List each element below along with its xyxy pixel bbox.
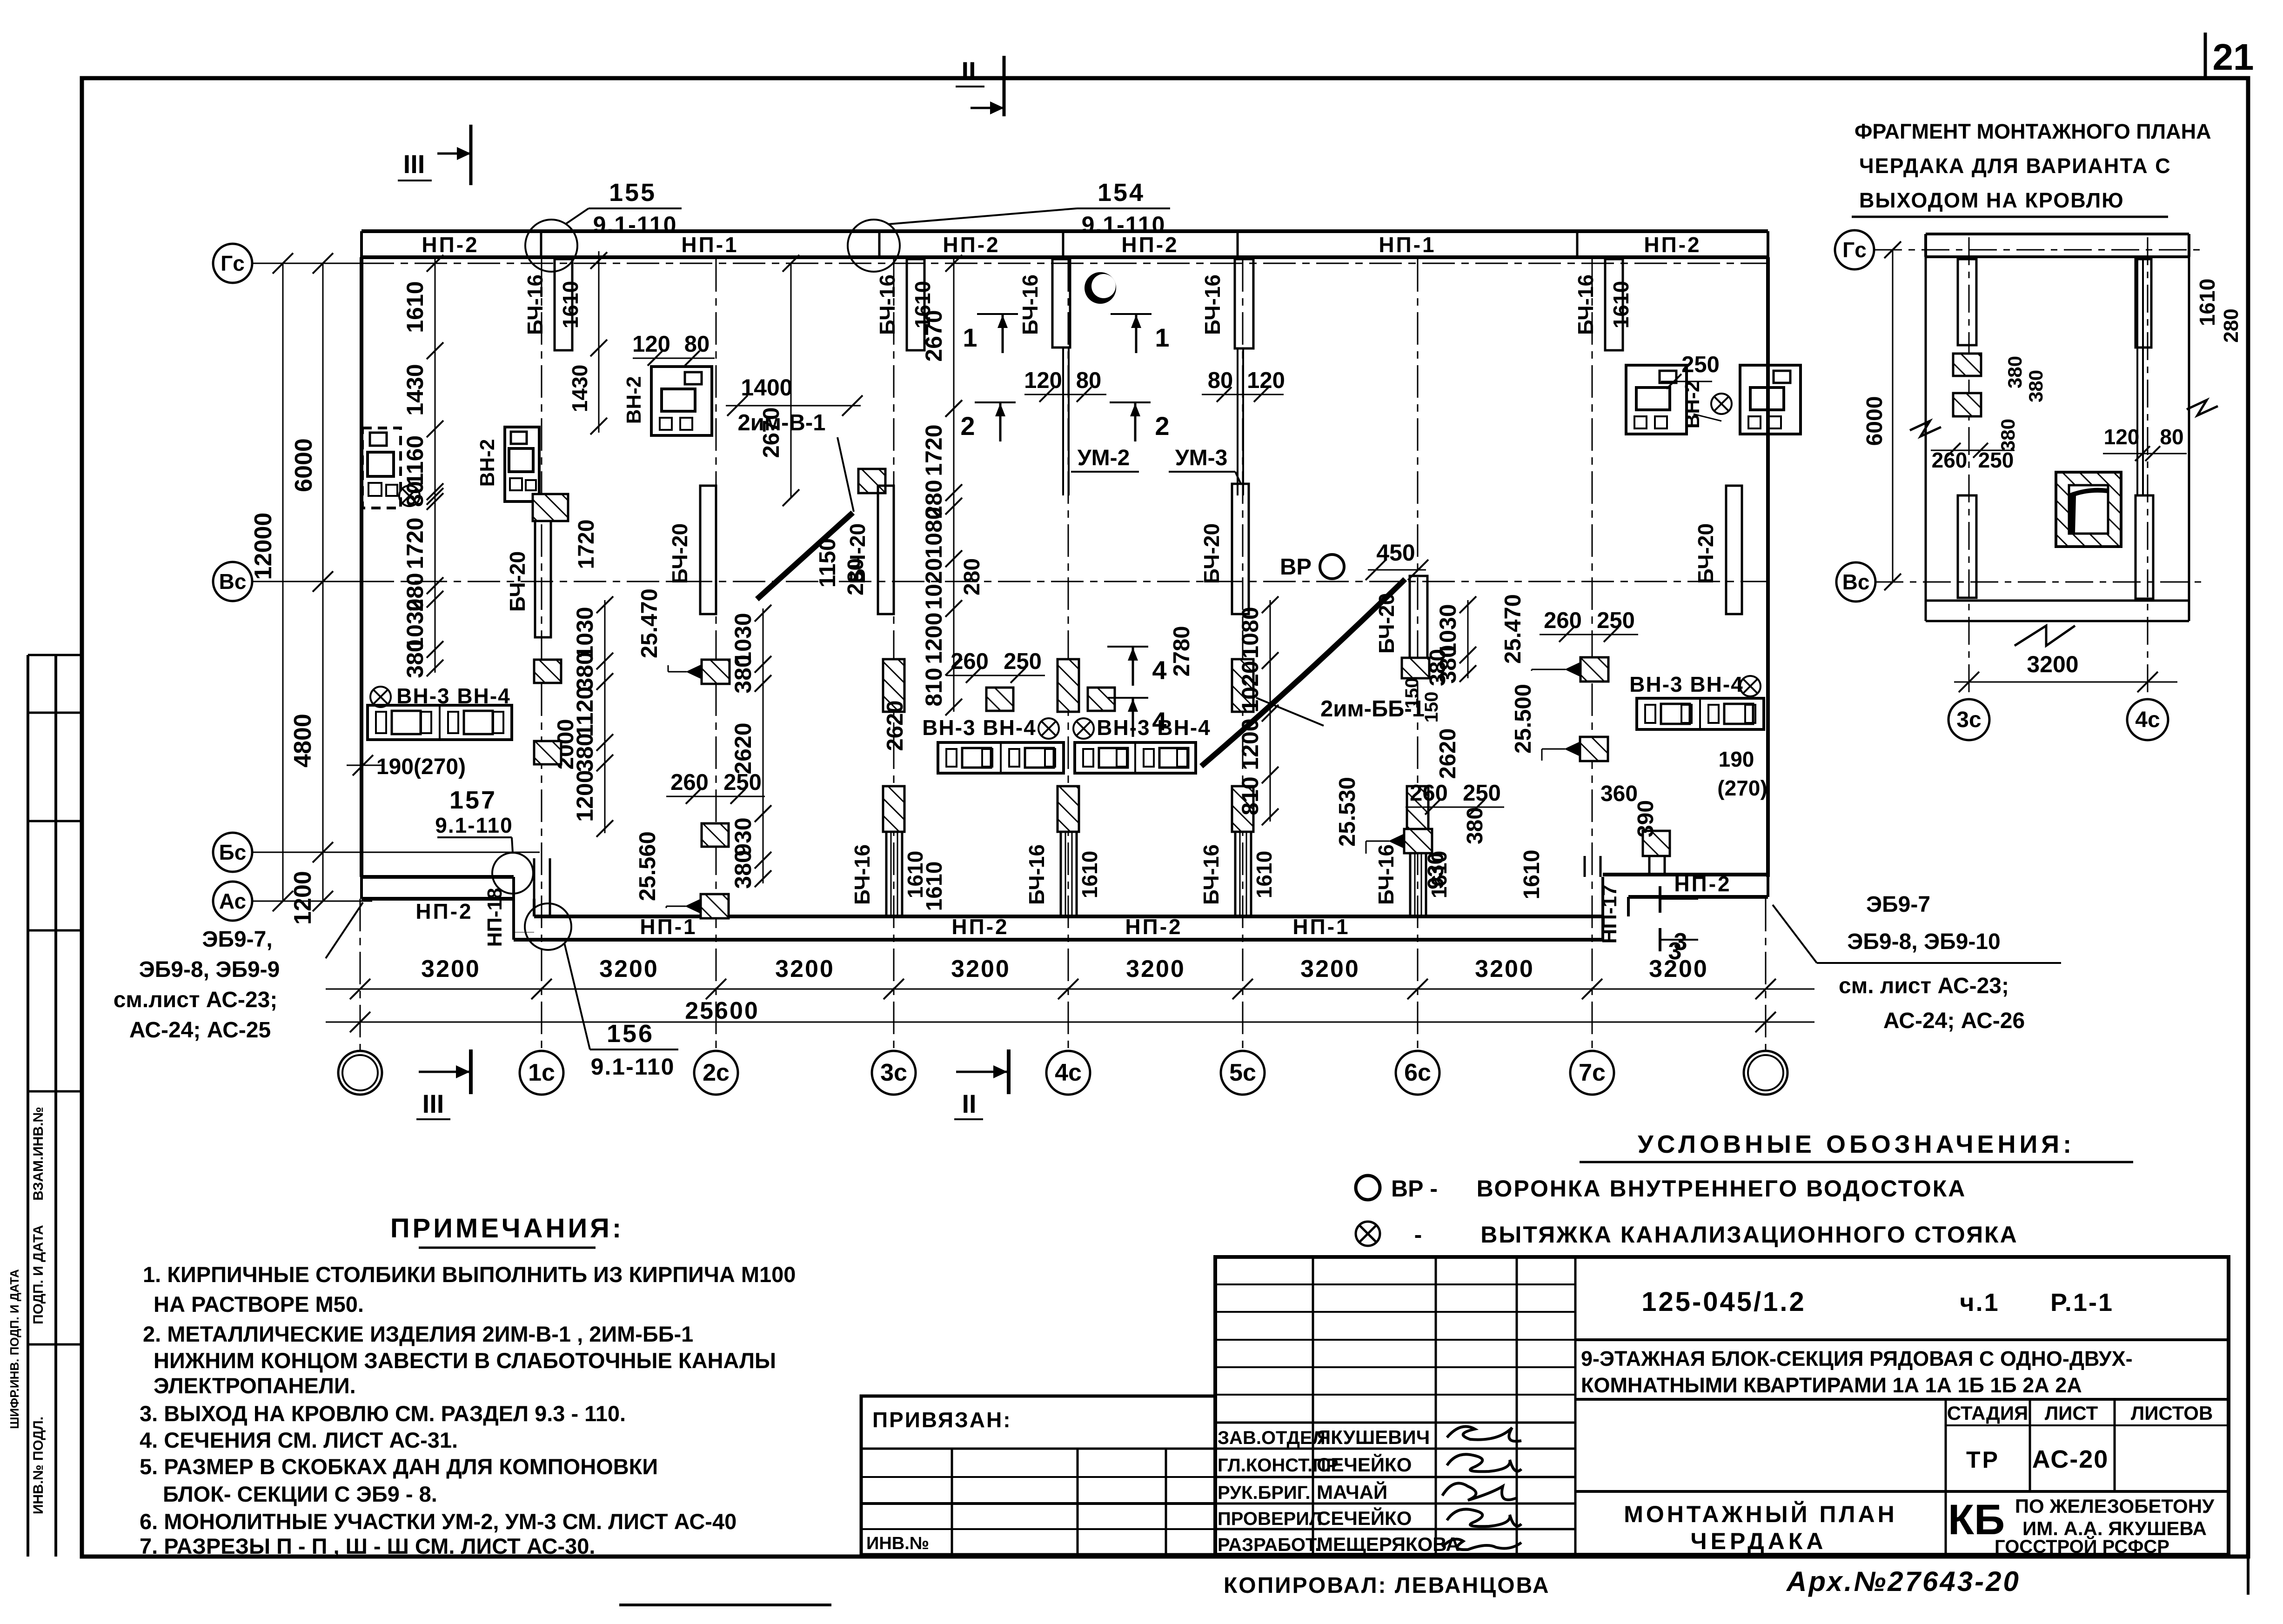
joint detail circle 155 (525, 220, 577, 272)
fragment top wall band (1926, 233, 2189, 235)
fragment hatched block 1 (1953, 354, 1981, 376)
svg-text:810: 810 (921, 668, 947, 706)
pier БЧ-16 below top wall at x=1921 (907, 259, 924, 350)
svg-text:1610: 1610 (2195, 279, 2219, 326)
svg-text:810: 810 (1237, 776, 1263, 815)
svg-text:1610: 1610 (1252, 851, 1276, 898)
svg-text:3200: 3200 (775, 956, 835, 982)
section mark 1 at (2100,675) (977, 313, 1018, 315)
svg-text:ВОРОНКА ВНУТРЕННЕГО ВОДОСТОК: ВОРОНКА ВНУТРЕННЕГО ВОДОСТОКА (1477, 1176, 1967, 1202)
svg-text:380: 380 (572, 652, 598, 690)
row axis line Бс (252, 852, 540, 853)
signature scribble 2 (1447, 1454, 1521, 1471)
fragment thin strip at 4с (2136, 257, 2138, 495)
svg-text:9.1-110: 9.1-110 (435, 813, 513, 837)
svg-text:360: 360 (1600, 782, 1638, 806)
привязан table outer (861, 1396, 1215, 1555)
hatched pier at x=2296 near Вс (1058, 659, 1079, 712)
metal item 2им-В-1 leader (837, 437, 854, 512)
svg-text:АС-20: АС-20 (2032, 1445, 2109, 1473)
svg-text:80: 80 (402, 481, 428, 507)
wall jog НП-17 (1601, 877, 1604, 940)
dim row 25600 line (326, 1022, 1814, 1023)
svg-text:1020: 1020 (1237, 661, 1263, 712)
vent block ВН at (790,1516) (368, 705, 512, 740)
svg-text:2620: 2620 (1435, 728, 1460, 779)
column bubble 4с (1046, 1051, 1090, 1095)
dim chain 12000 line (282, 263, 284, 901)
svg-text:1610: 1610 (1078, 851, 1102, 898)
svg-text:156: 156 (607, 1020, 654, 1048)
frame right lower extension (2247, 1557, 2250, 1595)
svg-text:ВЫТЯЖКА КАНАЛИЗАЦИОННОГО С: ВЫТЯЖКА КАНАЛИЗАЦИОННОГО СТОЯКА (1480, 1222, 2018, 1248)
svg-text:25.500: 25.500 (1511, 684, 1536, 754)
svg-text:МОНТАЖНЫЙ ПЛАН: МОНТАЖНЫЙ ПЛАН (1624, 1501, 1897, 1527)
pier 7с bottom lines (1584, 856, 1586, 877)
svg-text:ЭЛЕКТРОПАНЕЛИ.: ЭЛЕКТРОПАНЕЛИ. (154, 1373, 356, 1398)
column bubble 6с (1396, 1051, 1439, 1095)
svg-text:260: 260 (951, 649, 989, 674)
wall jog НП-18 (512, 877, 515, 940)
svg-text:1080: 1080 (921, 507, 947, 558)
svg-text:НП-1: НП-1 (681, 233, 738, 257)
svg-text:СЕЧЕЙКО: СЕЧЕЙКО (1317, 1453, 1412, 1476)
svg-text:БЧ-16: БЧ-16 (1018, 274, 1042, 335)
dim chain at 1287 (598, 251, 600, 433)
svg-text:БЧ-16: БЧ-16 (875, 274, 899, 335)
svg-text:ВЗАМ.ИНВ.№: ВЗАМ.ИНВ.№ (31, 1107, 46, 1201)
svg-text:НП-2: НП-2 (415, 899, 473, 923)
svg-text:ИНВ.№: ИНВ.№ (866, 1534, 929, 1553)
vent block ВН-2 dashed left (362, 428, 401, 508)
svg-text:Ас: Ас (219, 889, 246, 913)
svg-text:ПО ЖЕЛЕЗОБЕТОНУ: ПО ЖЕЛЕЗОБЕТОНУ (2015, 1495, 2215, 1517)
svg-text:3200: 3200 (951, 956, 1011, 982)
joint detail leader 154 (888, 208, 1077, 224)
fragment bubble 4с (2127, 699, 2168, 740)
svg-text:2им-В-1: 2им-В-1 (738, 410, 826, 435)
svg-text:3200: 3200 (421, 956, 481, 982)
row axis bubble Ас (213, 882, 252, 921)
svg-text:ПОДП. И ДАТА: ПОДП. И ДАТА (31, 1225, 46, 1324)
note ЭБ9 right leader (1773, 905, 1817, 963)
svg-text:НИЖНИМ КОНЦОМ ЗАВЕСТИ В: НИЖНИМ КОНЦОМ ЗАВЕСТИ В СЛАБОТОЧНЫЕ КАНА… (154, 1348, 776, 1373)
svg-text:ВН-3 ВН-4: ВН-3 ВН-4 (922, 715, 1036, 740)
stray line bottom (619, 1604, 831, 1606)
svg-text:III: III (403, 149, 425, 179)
svg-text:БЧ-20: БЧ-20 (1199, 523, 1224, 584)
привязан table lines (861, 1448, 1215, 1450)
section mark 2 at (2095,865) (975, 401, 1016, 403)
svg-text:6000: 6000 (290, 438, 317, 492)
svg-text:1610: 1610 (558, 281, 582, 328)
svg-text:1020: 1020 (921, 558, 947, 609)
svg-text:БЧ-16: БЧ-16 (1200, 274, 1225, 335)
hatched block at 7с bottom (1643, 831, 1670, 856)
svg-text:Гс: Гс (221, 251, 245, 275)
svg-text:НП-1: НП-1 (1379, 233, 1436, 257)
bottom wall band (514, 932, 534, 933)
svg-text:ВЫХОДОМ НА КРОВЛЮ: ВЫХОДОМ НА КРОВЛЮ (1859, 188, 2124, 212)
svg-text:1430: 1430 (568, 365, 592, 412)
hatched square at (1148,1593) (534, 741, 561, 764)
svg-text:(270): (270) (1717, 776, 1767, 800)
svg-text:ВН-3 ВН-4: ВН-3 ВН-4 (1629, 672, 1743, 696)
svg-text:ЗАВ.ОТДЕЛ.: ЗАВ.ОТДЕЛ. (1218, 1428, 1331, 1448)
svg-text:157: 157 (449, 786, 497, 814)
hatched anchor block at (1506,1922) (701, 894, 729, 918)
dim chain line x=1640 (763, 608, 764, 883)
svg-text:1720: 1720 (574, 520, 599, 569)
svg-text:БЧ-20: БЧ-20 (668, 523, 692, 584)
left wall (360, 257, 363, 877)
svg-text:380: 380 (1426, 649, 1450, 686)
legend item 1 symbol (1356, 1176, 1380, 1200)
svg-text:390: 390 (1634, 800, 1658, 837)
svg-text:БЧ-16: БЧ-16 (523, 274, 547, 335)
svg-text:СЕЧЕЙКО: СЕЧЕЙКО (1317, 1507, 1412, 1529)
svg-text:ЭБ9-8, ЭБ9-10: ЭБ9-8, ЭБ9-10 (1847, 929, 2000, 954)
svg-text:12000: 12000 (250, 513, 277, 580)
svg-text:ВН-2: ВН-2 (1681, 381, 1704, 429)
svg-text:1610: 1610 (1609, 281, 1633, 328)
svg-text:380: 380 (2004, 356, 2026, 388)
pier БЧ-20 mid at x=1904 (878, 486, 894, 614)
svg-text:2620: 2620 (883, 700, 908, 751)
section mark III top (398, 125, 471, 185)
svg-text:СТАДИЯ: СТАДИЯ (1947, 1402, 2028, 1424)
hatched anchor block at (3018,1782) (1404, 829, 1432, 853)
svg-text:1610: 1610 (1520, 850, 1544, 900)
fragment axis line Гс (1874, 249, 2205, 251)
svg-text:НП-2: НП-2 (1125, 915, 1182, 939)
svg-text:ВН-2: ВН-2 (476, 439, 499, 487)
svg-text:2с: 2с (703, 1059, 730, 1086)
svg-text:1080: 1080 (1237, 607, 1263, 658)
svg-text:2620: 2620 (730, 722, 756, 774)
svg-text:БЧ-16: БЧ-16 (1573, 274, 1598, 335)
svg-text:см.лист АС-23;: см.лист АС-23; (114, 988, 278, 1012)
svg-text:НП-2: НП-2 (1644, 233, 1701, 257)
svg-text:250: 250 (1978, 448, 2014, 472)
fragment pier at 3с top (1958, 259, 1976, 345)
monolithic strip УМ-2 at 4с (1062, 348, 1064, 495)
fragment pier at 3с bottom (1958, 495, 1976, 598)
svg-text:НП-2: НП-2 (943, 233, 1000, 257)
joint detail label 156 (564, 943, 590, 1049)
fragment title underline (1852, 216, 2168, 218)
svg-text:1160: 1160 (402, 435, 428, 486)
svg-text:4800: 4800 (289, 714, 316, 768)
svg-text:3200: 3200 (599, 956, 659, 982)
dim chain line x=1300 (604, 600, 606, 833)
svg-text:НП-1: НП-1 (1292, 915, 1350, 939)
hatched square at (2338,1478) (1088, 688, 1115, 711)
svg-text:280: 280 (844, 558, 868, 595)
svg-text:Арх.№27643-20: Арх.№27643-20 (1786, 1566, 2021, 1597)
svg-text:ПРИВЯЗАН:: ПРИВЯЗАН: (872, 1408, 1012, 1432)
svg-text:21: 21 (2213, 36, 2254, 78)
svg-text:ВР: ВР (1280, 555, 1312, 580)
dim chain 6000/4800/1200 line (322, 263, 324, 901)
svg-text:1430: 1430 (402, 364, 428, 415)
svg-text:6. МОНОЛИТНЫЕ УЧАСТКИ УМ-2: 6. МОНОЛИТНЫЕ УЧАСТКИ УМ-2, УМ-3 СМ. ЛИС… (140, 1509, 736, 1534)
svg-text:БЛОК- СЕКЦИИ С ЭБ9 - 8.: БЛОК- СЕКЦИИ С ЭБ9 - 8. (163, 1482, 437, 1506)
joint detail leader 155 (565, 208, 589, 224)
svg-text:БЧ-16: БЧ-16 (1024, 844, 1049, 905)
svg-text:ЧЕРДАКА: ЧЕРДАКА (1690, 1528, 1827, 1554)
svg-text:4с: 4с (2135, 708, 2160, 732)
rain funnel dark at top (1085, 272, 1116, 304)
svg-text:6с: 6с (1404, 1059, 1431, 1086)
vent block ВН-2 at (3740,785) (1740, 365, 1801, 434)
svg-text:9.1-110: 9.1-110 (593, 212, 677, 238)
svg-text:380: 380 (730, 655, 756, 693)
svg-text:Вс: Вс (219, 569, 247, 594)
svg-text:25.560: 25.560 (635, 831, 660, 901)
fragment break mark bottom (2038, 621, 2084, 636)
svg-text:380: 380 (1997, 419, 2019, 451)
svg-text:БЧ-20: БЧ-20 (505, 551, 529, 612)
svg-text:НП-2: НП-2 (1674, 872, 1731, 896)
svg-text:1150: 1150 (815, 538, 840, 588)
svg-text:1400: 1400 (741, 374, 792, 401)
svg-text:ПРИМЕЧАНИЯ:: ПРИМЕЧАНИЯ: (390, 1213, 624, 1243)
signature scribble 1 (1447, 1426, 1521, 1441)
row axis line Ас (252, 901, 372, 902)
note ЭБ9 left leader (326, 902, 363, 958)
legend item 2 symbol (1356, 1222, 1380, 1246)
svg-text:3200: 3200 (1126, 956, 1185, 982)
fragment right wall (2188, 257, 2190, 621)
svg-text:ЧЕРДАКА ДЛЯ ВАРИАНТА С: ЧЕРДАКА ДЛЯ ВАРИАНТА С (1859, 154, 2171, 178)
vent stack symbol right (1711, 394, 1732, 414)
metal item 2им-ББ-1 bar (1201, 579, 1405, 766)
vent block ВН at (2310,1596) (1075, 742, 1196, 773)
svg-text:9.1-110: 9.1-110 (591, 1054, 675, 1080)
fragment left wall (1925, 257, 1927, 621)
svg-text:АС-24; АС-26: АС-24; АС-26 (1883, 1009, 2025, 1033)
svg-text:260: 260 (1410, 781, 1448, 806)
svg-text:120: 120 (1024, 368, 1062, 393)
svg-text:3с: 3с (880, 1059, 907, 1086)
joint detail circle 157 (492, 853, 533, 894)
labels ВН-3 ВН-4 center-right (1073, 718, 1094, 739)
hatched square at 6с upper (1402, 658, 1429, 678)
dim chain line x=2050 (953, 259, 955, 413)
svg-text:II: II (962, 1089, 976, 1118)
svg-text:7. РАЗРЕЗЫ П - П , Ш - Ш: 7. РАЗРЕЗЫ П - П , Ш - Ш СМ. ЛИСТ АС-30. (140, 1534, 595, 1558)
pier 1с bottom by circle 157 (533, 858, 536, 916)
svg-text:НП-1: НП-1 (640, 915, 697, 939)
svg-text:2: 2 (1155, 411, 1169, 441)
svg-text:МАЧАЙ: МАЧАЙ (1317, 1481, 1387, 1503)
top wall band outline (362, 229, 1768, 233)
title block signature rows (1215, 1422, 1575, 1424)
pier БЧ-20 mid at x=1522 (700, 486, 716, 614)
svg-text:120: 120 (2104, 425, 2140, 449)
hatched anchor block at (1508,1418) (702, 660, 730, 684)
vent block ВН-2 solid left bay (505, 427, 539, 501)
hatched anchor block at (3397,1413) (1580, 657, 1608, 682)
row axis line Гс (252, 263, 362, 264)
joint detail circle 154 (848, 220, 900, 272)
svg-text:ФРАГМЕНТ МОНТАЖНОГО ПЛАНА: ФРАГМЕНТ МОНТАЖНОГО ПЛАНА (1855, 120, 2211, 143)
svg-text:2. МЕТАЛЛИЧЕСКИЕ ИЗДЕЛИЯ 2: 2. МЕТАЛЛИЧЕСКИЕ ИЗДЕЛИЯ 2ИМ-В-1 , 2ИМ-Б… (143, 1322, 693, 1346)
svg-text:380: 380 (2025, 370, 2047, 402)
pier БЧ-16 at 4с (1052, 259, 1070, 348)
fragment pier at 4с bottom (2136, 495, 2153, 599)
signature scribble 5 (1442, 1539, 1521, 1550)
svg-text:380: 380 (730, 850, 756, 889)
lower-right wall band НП-2 (1603, 873, 1768, 876)
svg-text:II: II (961, 56, 976, 86)
fragment bubble 3с (1948, 699, 1989, 740)
svg-text:3. ВЫХОД НА КРОВЛЮ СМ. Р: 3. ВЫХОД НА КРОВЛЮ СМ. РАЗДЕЛ 9.3 - 110. (140, 1401, 626, 1426)
svg-text:260: 260 (1544, 608, 1582, 633)
pier БЧ-16 below top wall at x=3422 (1605, 259, 1623, 350)
svg-text:154: 154 (1098, 179, 1145, 207)
svg-text:Р.1-1: Р.1-1 (2050, 1289, 2114, 1317)
svg-text:БЧ-16: БЧ-16 (1374, 844, 1398, 905)
svg-text:РАЗРАБОТ.: РАЗРАБОТ. (1218, 1535, 1320, 1555)
svg-text:2780: 2780 (1169, 626, 1194, 676)
svg-text:3200: 3200 (1475, 956, 1534, 982)
pier БЧ-16 above bottom wall at x=1921 (883, 786, 904, 832)
fragment pier at 4с top (2136, 259, 2151, 348)
svg-text:9.1-110: 9.1-110 (1082, 212, 1166, 238)
rain funnel ВР at Вс (1320, 555, 1344, 579)
column axis dash-dot lines (360, 899, 361, 1051)
svg-text:1720: 1720 (402, 517, 428, 569)
svg-text:МЕЩЕРЯКОВА: МЕЩЕРЯКОВА (1317, 1533, 1460, 1555)
hatched square at (1508,1770) (702, 823, 729, 847)
section mark 3 right (1659, 886, 1661, 913)
svg-text:4: 4 (1152, 655, 1166, 685)
pier БЧ-20 mid at x=3727 (1726, 486, 1742, 614)
svg-text:4. СЕЧЕНИЯ СМ. ЛИСТ АС-3: 4. СЕЧЕНИЯ СМ. ЛИСТ АС-31. (140, 1428, 458, 1452)
title block line above name (1575, 1490, 2229, 1493)
svg-text:280: 280 (960, 558, 984, 595)
svg-text:см. лист АС-23;: см. лист АС-23; (1839, 974, 2009, 998)
fragment hatched block 2 (1953, 393, 1981, 416)
left margin strip table (27, 655, 29, 1557)
svg-text:2им-ББ-1: 2им-ББ-1 (1320, 696, 1425, 722)
svg-text:190: 190 (1719, 747, 1754, 771)
column bubble end (338, 1051, 382, 1095)
svg-text:Вс: Вс (1842, 570, 1870, 594)
row axis Гс dash line through plan (362, 263, 1768, 264)
svg-text:2670: 2670 (921, 310, 947, 361)
svg-text:ШИФР.ИНВ. ПОДП. И ДАТА: ШИФР.ИНВ. ПОДП. И ДАТА (7, 1269, 21, 1429)
svg-text:БЧ-16: БЧ-16 (1199, 844, 1223, 905)
metal item 2им-В-1 bar (757, 513, 853, 599)
svg-text:УМ-3: УМ-3 (1175, 446, 1228, 470)
svg-text:3200: 3200 (2027, 651, 2078, 677)
fragment break mark right (2187, 400, 2218, 415)
pier БЧ-16 above bottom wall at x=2671 (1234, 832, 1237, 916)
joint detail circle 156 (525, 903, 571, 950)
row axis Вс dash line through plan (362, 581, 1768, 582)
svg-text:380: 380 (402, 639, 428, 678)
column bubble 1с (520, 1051, 563, 1095)
title block line under series (1575, 1398, 2229, 1401)
title block small rows left (1215, 1283, 1575, 1285)
svg-text:5с: 5с (1229, 1059, 1256, 1086)
vent block ВН-2 at (1400,788) (651, 367, 712, 435)
svg-text:ЭБ9-7,: ЭБ9-7, (202, 927, 272, 952)
svg-text:7с: 7с (1579, 1059, 1606, 1086)
svg-text:6000: 6000 (1862, 396, 1887, 446)
svg-text:1720: 1720 (921, 424, 947, 476)
svg-text:ч.1: ч.1 (1960, 1289, 1999, 1317)
pier БЧ-16 at 5с (1235, 259, 1253, 348)
fragment axis bubble Вс (1836, 562, 1875, 601)
svg-text:155: 155 (609, 179, 656, 207)
svg-text:НП-18: НП-18 (483, 888, 506, 947)
svg-text:ВР -: ВР - (1391, 1176, 1438, 1202)
svg-text:ВН-2: ВН-2 (623, 376, 645, 424)
fragment dim line small (1953, 342, 1954, 458)
pier БЧ-20 mid at 1с (535, 521, 551, 637)
svg-text:ЭБ9-8, ЭБ9-9: ЭБ9-8, ЭБ9-9 (139, 957, 280, 982)
svg-text:АС-24; АС-25: АС-24; АС-25 (129, 1018, 271, 1043)
svg-text:80: 80 (2160, 425, 2183, 449)
svg-text:ИНВ.№ ПОДЛ.: ИНВ.№ ПОДЛ. (31, 1417, 46, 1514)
fragment column axis lines (1968, 237, 1970, 699)
notes heading underline (419, 1247, 596, 1249)
top band panel joints (540, 231, 542, 257)
svg-text:1: 1 (1155, 323, 1169, 352)
svg-text:3с: 3с (1956, 708, 1981, 732)
fragment axis line Вс (1875, 581, 2205, 583)
svg-text:ЯКУШЕВИЧ: ЯКУШЕВИЧ (1317, 1426, 1430, 1448)
svg-text:280: 280 (2220, 308, 2243, 342)
row axis bubble Бс (213, 833, 252, 872)
svg-text:250: 250 (1681, 352, 1720, 377)
svg-text:9-ЭТАЖНАЯ БЛОК-СЕКЦИЯ РЯДО: 9-ЭТАЖНАЯ БЛОК-СЕКЦИЯ РЯДОВАЯ С ОДНО-ДВУ… (1581, 1347, 2133, 1370)
section mark 1 at (2387,675) (1111, 313, 1152, 315)
vent block ВН at (2016,1596) (938, 742, 1064, 773)
svg-text:ЛИСТ: ЛИСТ (2045, 1402, 2098, 1424)
dim chain line x=2730 (1270, 600, 1271, 822)
dim chain line x=2050 (953, 404, 955, 712)
svg-text:1. КИРПИЧНЫЕ СТОЛБИКИ ВЫПОЛН: 1. КИРПИЧНЫЕ СТОЛБИКИ ВЫПОЛНИТЬ ИЗ КИРПИ… (143, 1262, 796, 1287)
lower-left wall band НП-2 (362, 875, 514, 879)
right wall (1766, 257, 1770, 877)
svg-text:1с: 1с (528, 1059, 555, 1086)
hatched anchor block at (3396,1584) (1580, 737, 1608, 761)
svg-text:4: 4 (1152, 707, 1166, 736)
hatched block at 1с mid (533, 494, 568, 521)
svg-text:260: 260 (670, 770, 709, 795)
svg-text:2: 2 (960, 411, 975, 441)
svg-text:1200: 1200 (289, 871, 316, 925)
svg-text:3: 3 (1674, 929, 1687, 956)
fragment break mark left (1910, 421, 1941, 436)
fragment bottom wall band (1926, 600, 2189, 602)
hatched pier B at 4с (1058, 786, 1079, 832)
svg-text:260: 260 (1932, 448, 1968, 472)
svg-text:4с: 4с (1055, 1059, 1082, 1086)
svg-text:25.470: 25.470 (1500, 594, 1526, 664)
section mark II bottom (954, 1049, 1009, 1119)
dim chain line x=935 (435, 497, 436, 673)
svg-text:ГОССТРОЙ РСФСР: ГОССТРОЙ РСФСР (1995, 1536, 2169, 1557)
svg-text:1610: 1610 (922, 862, 947, 911)
stage header cells (1945, 1399, 1947, 1555)
vent block ВН-2 at (3495,785) (1626, 365, 1687, 434)
